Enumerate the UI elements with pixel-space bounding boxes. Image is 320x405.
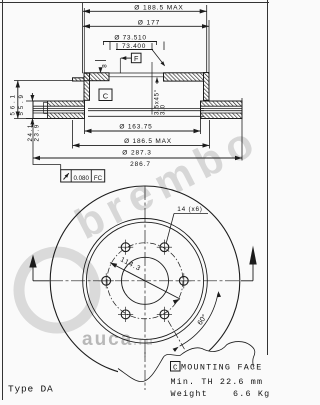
svg-text:286.7: 286.7 [130,161,151,168]
braking band section right [201,101,243,119]
braking band section left [33,101,85,119]
svg-text:C: C [173,364,178,372]
dimension 60 deg [168,291,221,352]
svg-text:14 (x6): 14 (x6) [177,206,203,213]
center lines [49,280,241,282]
left hat wall [84,73,90,100]
svg-text:6.6 Kg: 6.6 Kg [233,389,269,399]
svg-text:8: 8 [102,64,109,68]
border left [2,0,4,400]
svg-text:73.400: 73.400 [122,43,146,50]
left flange OD slab [73,78,85,81]
datum C box [99,89,112,101]
datum F box [120,53,141,73]
bolt holes x6 [99,240,192,322]
left datum arrow [29,255,49,281]
mounting face note [171,362,263,373]
hat outer circle [83,218,208,343]
runout tolerance frame 0.080 FC [33,165,105,183]
lip top background line across bore [109,72,164,74]
svg-text:55.9: 55.9 [18,92,25,115]
dimension D177 [83,20,209,73]
vane lines under hat [88,108,204,110]
hub bore circle [122,257,169,304]
dimension 8 [95,61,109,74]
right hat wall [204,73,210,101]
svg-text:Ø 188.5 MAX: Ø 188.5 MAX [134,5,183,12]
ext line left 2 [83,8,85,73]
right datum arrow [241,246,257,281]
svg-text:3.0: 3.0 [161,104,167,115]
watermark logo ring [19,252,95,328]
ext line right [208,20,210,72]
svg-text:Ø 287.3: Ø 287.3 [122,150,151,157]
border right [267,0,269,400]
svg-text:Ø 73.510: Ø 73.510 [114,35,146,42]
dimension 24.1/23.9 [26,93,40,142]
front view outer circle [50,186,240,376]
watermark diagonal text [68,115,268,248]
svg-text:Ø 163.75: Ø 163.75 [119,124,152,131]
label 14 (x6) [166,206,208,243]
break line (freehand) [118,342,255,382]
chamfer note 3.5x45 3.0 [152,62,167,115]
svg-text:Ø 186.5 MAX: Ø 186.5 MAX [124,138,172,145]
white-out blob hiding circle arc [117,349,174,387]
dimension D186.5 MAX [73,120,210,149]
dimension D287.3/286.7 [33,98,242,168]
dimension D188.5 MAX [83,3,207,73]
tick top [14,80,73,82]
ext line left [82,3,84,73]
svg-text:MOUNTING FACE: MOUNTING FACE [181,363,263,373]
hat step circle [86,222,203,339]
dimension 56.1/55.9 [10,81,73,119]
svg-text:C: C [103,91,109,100]
center line lower segment over break [144,352,146,390]
border top [0,2,269,4]
svg-text:Weight: Weight [171,389,208,399]
right lip hat section [164,73,204,81]
svg-text:F: F [134,54,139,63]
svg-text:Type DA: Type DA [8,384,54,395]
dimension D73.510/73.400 [103,35,165,66]
svg-text:FC: FC [94,175,103,182]
svg-text:56.1: 56.1 [10,92,17,115]
white-out region below break [118,342,256,400]
bolt circle (dash-dot) [107,243,183,319]
svg-text:Ø 177: Ø 177 [138,20,160,27]
svg-text:Min. TH 22.6 mm: Min. TH 22.6 mm [171,377,264,387]
dimension D163.75 [85,119,201,135]
svg-text:0.080: 0.080 [73,175,89,182]
svg-text:23.9: 23.9 [33,123,40,141]
dimension 114.3 bolt circle [110,256,180,304]
hat flange section left lip [73,73,210,101]
bore chamfer background line [109,76,164,78]
tick bottom [14,118,33,120]
ext line right [206,5,208,72]
